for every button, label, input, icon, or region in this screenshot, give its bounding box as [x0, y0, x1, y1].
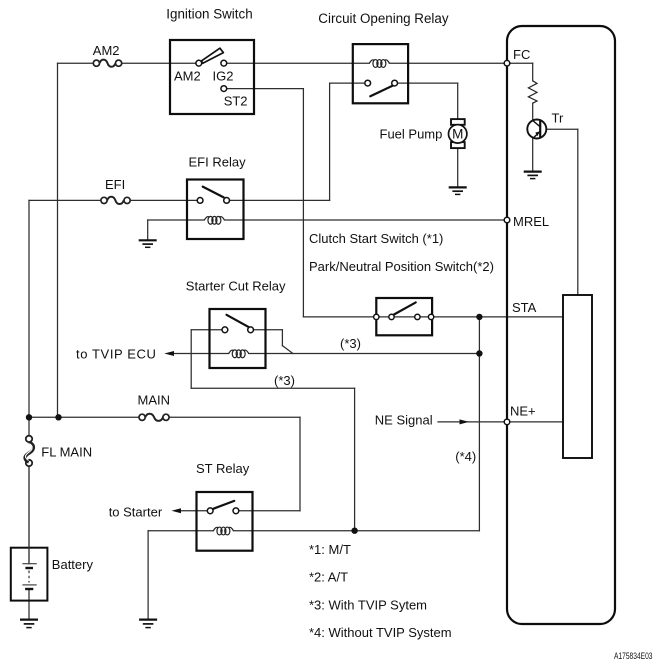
- svg-text:AM2: AM2: [174, 69, 201, 84]
- svg-text:Battery: Battery: [52, 557, 94, 572]
- svg-text:ST2: ST2: [224, 94, 248, 109]
- svg-text:EFI: EFI: [105, 177, 125, 192]
- svg-text:NE+: NE+: [510, 404, 536, 419]
- svg-text:*1: M/T: *1: M/T: [309, 542, 351, 557]
- svg-text:FL MAIN: FL MAIN: [41, 445, 92, 460]
- svg-text:Starter Cut Relay: Starter Cut Relay: [186, 279, 286, 294]
- svg-text:FC: FC: [513, 47, 530, 62]
- svg-text:(*4): (*4): [455, 449, 476, 464]
- svg-text:Park/Neutral Position Switch(*: Park/Neutral Position Switch(*2): [309, 259, 494, 274]
- svg-text:A175834E03: A175834E03: [614, 651, 653, 661]
- svg-text:(*3): (*3): [274, 373, 295, 388]
- svg-text:Tr: Tr: [552, 111, 564, 126]
- svg-text:to Starter: to Starter: [109, 505, 163, 520]
- svg-text:*2: A/T: *2: A/T: [309, 570, 348, 585]
- svg-text:M: M: [452, 127, 463, 142]
- svg-text:*4: Without TVIP System: *4: Without TVIP System: [309, 625, 452, 640]
- svg-text:Ignition Switch: Ignition Switch: [166, 6, 252, 21]
- svg-text:*3: With TVIP Sytem: *3: With TVIP Sytem: [309, 598, 427, 613]
- svg-text:STA: STA: [512, 300, 537, 315]
- svg-text:IG2: IG2: [213, 69, 234, 84]
- svg-text:NE Signal: NE Signal: [375, 413, 433, 428]
- svg-text:(*3): (*3): [340, 336, 361, 351]
- svg-text:ST Relay: ST Relay: [196, 461, 250, 476]
- svg-text:to TVIP ECU: to TVIP ECU: [76, 346, 157, 361]
- svg-text:MREL: MREL: [513, 214, 549, 229]
- svg-text:Clutch Start Switch (*1): Clutch Start Switch (*1): [309, 231, 443, 246]
- svg-text:Circuit Opening Relay: Circuit Opening Relay: [318, 11, 449, 26]
- svg-text:EFI Relay: EFI Relay: [189, 155, 247, 170]
- svg-text:Fuel Pump: Fuel Pump: [380, 126, 443, 141]
- svg-text:AM2: AM2: [93, 43, 120, 58]
- svg-text:MAIN: MAIN: [138, 393, 171, 408]
